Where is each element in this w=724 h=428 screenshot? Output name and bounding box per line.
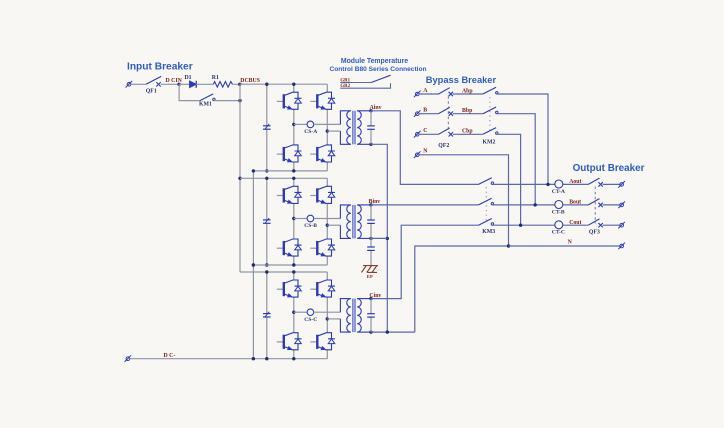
capacitor: DC bus cap bridge B (plates) bbox=[263, 218, 271, 223]
capacitor: B earth cap (wire) bbox=[370, 238, 372, 265]
svg-text:GR1: GR1 bbox=[340, 78, 350, 83]
node: bridge B left midpoint bbox=[292, 217, 295, 220]
terminal: bypass input C bbox=[414, 131, 421, 138]
node: neutral riser joins C neutral bbox=[386, 330, 389, 333]
contactor KM1 bbox=[200, 94, 215, 101]
node: bridge A left midpoint bbox=[292, 123, 295, 126]
transistor QA4 (bottom-right IGBT) bbox=[310, 145, 335, 162]
transformer TC bbox=[340, 299, 371, 333]
wire: CT to QF3 pole C bbox=[563, 224, 589, 226]
transistor QA3 (bottom-left IGBT) bbox=[277, 145, 302, 162]
svg-text:C: C bbox=[423, 128, 427, 134]
terminal: output N bbox=[618, 243, 625, 250]
node: Ainv output bbox=[369, 109, 372, 112]
node: bridge B right midpoint bbox=[326, 224, 329, 227]
node: N joins output N line bbox=[507, 244, 510, 247]
svg-text:CT-C: CT-C bbox=[552, 230, 565, 236]
mechanical link KM2 (dashed) bbox=[489, 97, 491, 132]
node: D CIN junction bbox=[177, 83, 180, 86]
breaker QF2 pole B bbox=[439, 107, 454, 116]
wire: midpoint to CS sensor bbox=[294, 123, 307, 125]
node: bypass join C bbox=[519, 224, 522, 227]
svg-text:Aout: Aout bbox=[569, 179, 581, 185]
wire: output N line bbox=[509, 245, 620, 247]
wire: KM3 to CT pole C bbox=[493, 224, 555, 226]
node: cap top bridge C bbox=[265, 270, 268, 273]
transformer TA bbox=[340, 111, 371, 145]
node: neutral riser at B midpoint bbox=[386, 237, 389, 240]
current sensor CS-B bbox=[307, 215, 314, 222]
wire: input terminal to QF1 bbox=[131, 83, 146, 85]
wire: GR2 line bbox=[340, 83, 390, 88]
node: transformer C secondary bottom bbox=[369, 330, 372, 333]
svg-text:QF3: QF3 bbox=[589, 230, 600, 236]
node: transformer B secondary bottom bbox=[369, 237, 372, 240]
capacitor: DC bus cap bridge A (wire) bbox=[266, 84, 268, 171]
current transformer CT-A bbox=[555, 180, 563, 188]
node: transformer A secondary bottom bbox=[369, 143, 372, 146]
svg-text:CT-A: CT-A bbox=[552, 189, 565, 195]
wire: Ainv to KM3-A bbox=[371, 111, 479, 185]
wire: bridge C leg x=293.8 segments bbox=[293, 272, 295, 359]
resistor R1 bbox=[213, 82, 232, 88]
svg-text:QF2: QF2 bbox=[438, 143, 449, 149]
transistor QC3 (bottom-left IGBT) bbox=[277, 333, 302, 350]
svg-text:D C-: D C- bbox=[164, 353, 176, 359]
wire: right midpoint to transformer A bbox=[327, 130, 340, 132]
capacitor: output filter cap A (plates) bbox=[367, 126, 375, 129]
wire: B caps midpoint tie bbox=[371, 237, 387, 239]
wire: QF3 to terminal C bbox=[603, 224, 620, 226]
transistor QA1 (top-left IGBT) bbox=[277, 92, 302, 109]
svg-text:Output Breaker: Output Breaker bbox=[573, 163, 645, 174]
transformer TB bbox=[340, 205, 371, 239]
contactor KM3 pole A bbox=[479, 178, 494, 185]
svg-text:GR2: GR2 bbox=[340, 84, 350, 89]
wire: neutral to output N bbox=[415, 246, 509, 332]
node: DC- bus joins DC- line bbox=[252, 357, 255, 360]
capacitor: DC bus cap bridge C (plates) bbox=[263, 312, 271, 317]
wire: bypass C to output C bbox=[498, 134, 521, 225]
contactor KM3 pole C bbox=[479, 219, 494, 226]
ground EP (earth symbol) bbox=[362, 266, 379, 273]
capacitor: DC bus cap bridge A (plates) bbox=[263, 124, 271, 129]
terminal: bypass input B bbox=[414, 110, 421, 117]
switch GR1 blade bbox=[371, 75, 390, 82]
breaker QF2 pole C bbox=[439, 128, 454, 137]
capacitor: DC bus cap bridge C (wire) bbox=[266, 272, 268, 359]
terminal: output A bbox=[618, 181, 625, 188]
breaker QF3 pole C bbox=[588, 219, 603, 228]
wire: midpoint to CS sensor bbox=[294, 218, 307, 220]
wire: DC- bus vertical bbox=[252, 171, 254, 359]
node: bypass join A bbox=[546, 183, 549, 186]
svg-text:Bypass Breaker: Bypass Breaker bbox=[426, 75, 497, 85]
node: bridge B neg rail corner bbox=[252, 263, 255, 266]
transistor QC1 (top-left IGBT) bbox=[277, 280, 302, 297]
contactor KM2 pole C bbox=[483, 128, 498, 135]
node: KM1 on DC+ bus bbox=[238, 99, 241, 102]
breaker QF3 pole B bbox=[588, 199, 603, 208]
wire: bridge B leg x=327.3 segments bbox=[326, 178, 328, 265]
contactor KM2 pole B bbox=[483, 107, 498, 114]
transistor QB3 (bottom-left IGBT) bbox=[277, 239, 302, 256]
node: DCBUS bbox=[238, 83, 241, 86]
node: bridge A left leg on + rail bbox=[292, 83, 295, 86]
node: Binv output bbox=[369, 203, 372, 206]
node: cap top bridge A bbox=[265, 83, 268, 86]
svg-text:Bbp: Bbp bbox=[462, 108, 472, 114]
node: bridge C left leg on + rail bbox=[292, 270, 295, 273]
svg-text:KM1: KM1 bbox=[199, 102, 212, 108]
wire: QF1 to node D CIN bbox=[161, 83, 179, 85]
svg-text:Abp: Abp bbox=[462, 88, 473, 94]
wire: D1 to R1 bbox=[196, 83, 213, 85]
transistor QB2 (top-right IGBT) bbox=[310, 186, 335, 203]
wire: CS sensor to transformer A bbox=[314, 123, 341, 125]
wire: bridge C positive rail bbox=[240, 271, 327, 273]
node: bypass join B bbox=[534, 203, 537, 206]
wire: CS sensor to transformer B bbox=[314, 218, 341, 220]
wire: bridge B positive rail bbox=[240, 177, 327, 179]
node: DC- tap bridge B bbox=[252, 263, 255, 266]
wire: CT to QF3 pole A bbox=[563, 183, 589, 185]
current sensor CS-A bbox=[307, 121, 314, 128]
breaker QF3 pole A bbox=[588, 178, 603, 187]
wire: transformer A bottom to neutral riser bbox=[371, 144, 387, 332]
breaker QF1 contact X bbox=[156, 82, 160, 86]
wire: right midpoint to transformer C bbox=[327, 318, 340, 320]
node: bridge A left leg on - rail bbox=[292, 169, 295, 172]
wire: bypass C terminal to QF2 bbox=[419, 133, 438, 135]
wire: QF2 to KM2 pole C bbox=[453, 133, 483, 135]
svg-text:Bout: Bout bbox=[569, 200, 581, 206]
wire: midpoint to CS sensor bbox=[294, 311, 307, 313]
wire: node to diode D1 bbox=[179, 83, 189, 85]
node: cap bottom bridge B bbox=[265, 263, 268, 266]
wire: QF2 to KM2 pole A bbox=[453, 93, 483, 95]
capacitor: output filter cap C (plates) bbox=[367, 314, 375, 317]
wire: QF3 to terminal B bbox=[603, 204, 620, 206]
breaker QF1 blade bbox=[146, 76, 161, 84]
node: bridge C left leg on - rail bbox=[292, 357, 295, 360]
terminal: bypass input N bbox=[414, 151, 421, 158]
wire: KM3 to CT pole B bbox=[493, 204, 555, 206]
svg-text:B: B bbox=[423, 108, 427, 114]
svg-text:R1: R1 bbox=[212, 75, 219, 81]
svg-text:Cout: Cout bbox=[569, 220, 581, 226]
contactor KM3 pole B bbox=[479, 198, 494, 205]
wire: KM3 to CT pole A bbox=[493, 183, 555, 185]
wire: QF2 to KM2 pole B bbox=[453, 113, 483, 115]
wire: R1 to DCBUS node bbox=[233, 83, 241, 85]
svg-text:CS-A: CS-A bbox=[304, 129, 317, 135]
wire: GR1 line bbox=[340, 82, 371, 84]
wire: bridge A leg x=293.8 segments bbox=[293, 84, 295, 171]
contactor KM2 pole A bbox=[483, 87, 498, 94]
mechanical link QF2 (dashed) bbox=[447, 96, 449, 132]
wire: bypass B terminal to QF2 bbox=[419, 113, 438, 115]
wire: Binv to KM3-B bbox=[371, 204, 479, 206]
wire: bridge A negative rail bbox=[253, 170, 327, 172]
node: bridge B left leg on + rail bbox=[292, 177, 295, 180]
svg-text:D1: D1 bbox=[185, 75, 192, 81]
current transformer CT-B bbox=[555, 201, 563, 209]
node: bridge A neg rail corner bbox=[252, 169, 255, 172]
svg-text:KM2: KM2 bbox=[483, 140, 496, 146]
wire: bridge B negative rail bbox=[253, 264, 327, 266]
svg-text:Input Breaker: Input Breaker bbox=[127, 61, 193, 72]
wire: bypass A to output A bbox=[498, 94, 549, 184]
breaker QF2 pole A bbox=[439, 88, 454, 97]
wire: bypass A terminal to QF2 bbox=[419, 93, 438, 95]
wire: C neutral line bbox=[371, 331, 415, 333]
capacitor: B earth cap (plates) bbox=[367, 247, 375, 250]
svg-text:KM3: KM3 bbox=[482, 229, 495, 235]
terminal: DC input bbox=[126, 81, 133, 88]
node: bridge C right midpoint bbox=[326, 317, 329, 320]
svg-text:Module Temperature: Module Temperature bbox=[341, 58, 408, 65]
node: cap bottom bridge A bbox=[265, 169, 268, 172]
wire: bridge B leg x=293.8 segments bbox=[293, 178, 295, 265]
terminal: output B bbox=[618, 202, 625, 209]
wire: CT to QF3 pole B bbox=[563, 204, 589, 206]
wire: QF3 to terminal A bbox=[603, 183, 620, 185]
wire: bridge A positive rail bbox=[240, 83, 327, 85]
mechanical link KM3 (dashed) bbox=[485, 187, 487, 223]
svg-text:EP: EP bbox=[367, 274, 373, 279]
capacitor: output filter cap B (plates) bbox=[367, 220, 375, 223]
capacitor: DC bus cap bridge B (wire) bbox=[266, 178, 268, 265]
current transformer CT-C bbox=[555, 221, 563, 229]
capacitor: output filter cap C (wire) bbox=[370, 299, 372, 333]
terminal: output C bbox=[618, 222, 625, 229]
svg-text:CT-B: CT-B bbox=[552, 209, 565, 215]
terminal: bypass input A bbox=[414, 91, 421, 98]
mechanical link QF3 (dashed) bbox=[594, 187, 596, 224]
diode D1 bbox=[190, 81, 197, 88]
transistor QA2 (top-right IGBT) bbox=[310, 92, 335, 109]
capacitor: output filter cap B (wire) bbox=[370, 205, 372, 239]
wire: bridge C leg x=327.3 segments bbox=[326, 272, 328, 359]
wire: bypass B to output B bbox=[498, 114, 536, 205]
svg-text:Cbp: Cbp bbox=[462, 129, 473, 135]
capacitor: output filter cap A (wire) bbox=[370, 111, 372, 145]
svg-text:DCBUS: DCBUS bbox=[240, 78, 260, 84]
node: DC+ tap bridge B bbox=[238, 177, 241, 180]
wire: right midpoint to transformer B bbox=[327, 224, 340, 226]
wire: DC- line to bridges bbox=[130, 358, 328, 360]
svg-text:CS-B: CS-B bbox=[304, 223, 317, 229]
wire: KM1 to DC+ bus bbox=[214, 100, 240, 102]
wire: bridge A leg x=327.3 segments bbox=[326, 84, 328, 171]
node: bridge C left midpoint bbox=[292, 311, 295, 314]
wire: Cinv to KM3-C bbox=[371, 225, 479, 298]
transistor QC2 (top-right IGBT) bbox=[310, 280, 335, 297]
wire: CS sensor to transformer C bbox=[314, 311, 341, 313]
wire: KM1 branch left drop bbox=[179, 84, 200, 100]
wire: DC+ bus vertical bbox=[239, 84, 241, 272]
node: bridge A right midpoint bbox=[326, 129, 329, 132]
node: Cinv output bbox=[369, 297, 372, 300]
node: bridge B left leg on - rail bbox=[292, 263, 295, 266]
current sensor CS-C bbox=[307, 309, 314, 316]
svg-text:CS-C: CS-C bbox=[304, 317, 317, 323]
node: cap top bridge B bbox=[265, 177, 268, 180]
svg-text:QF1: QF1 bbox=[146, 89, 157, 95]
transistor QC4 (bottom-right IGBT) bbox=[310, 333, 335, 350]
transistor QB1 (top-left IGBT) bbox=[277, 186, 302, 203]
terminal: DC- input bbox=[125, 355, 132, 362]
transistor QB4 (bottom-right IGBT) bbox=[310, 239, 335, 256]
svg-text:Control B80 Series Connection: Control B80 Series Connection bbox=[329, 66, 426, 73]
wire: bypass N to output N bbox=[419, 155, 508, 246]
node: cap bottom bridge C bbox=[265, 357, 268, 360]
